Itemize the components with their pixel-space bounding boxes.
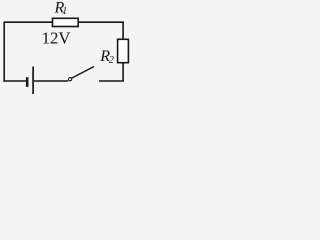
svg-text:12V: 12V <box>42 29 71 48</box>
